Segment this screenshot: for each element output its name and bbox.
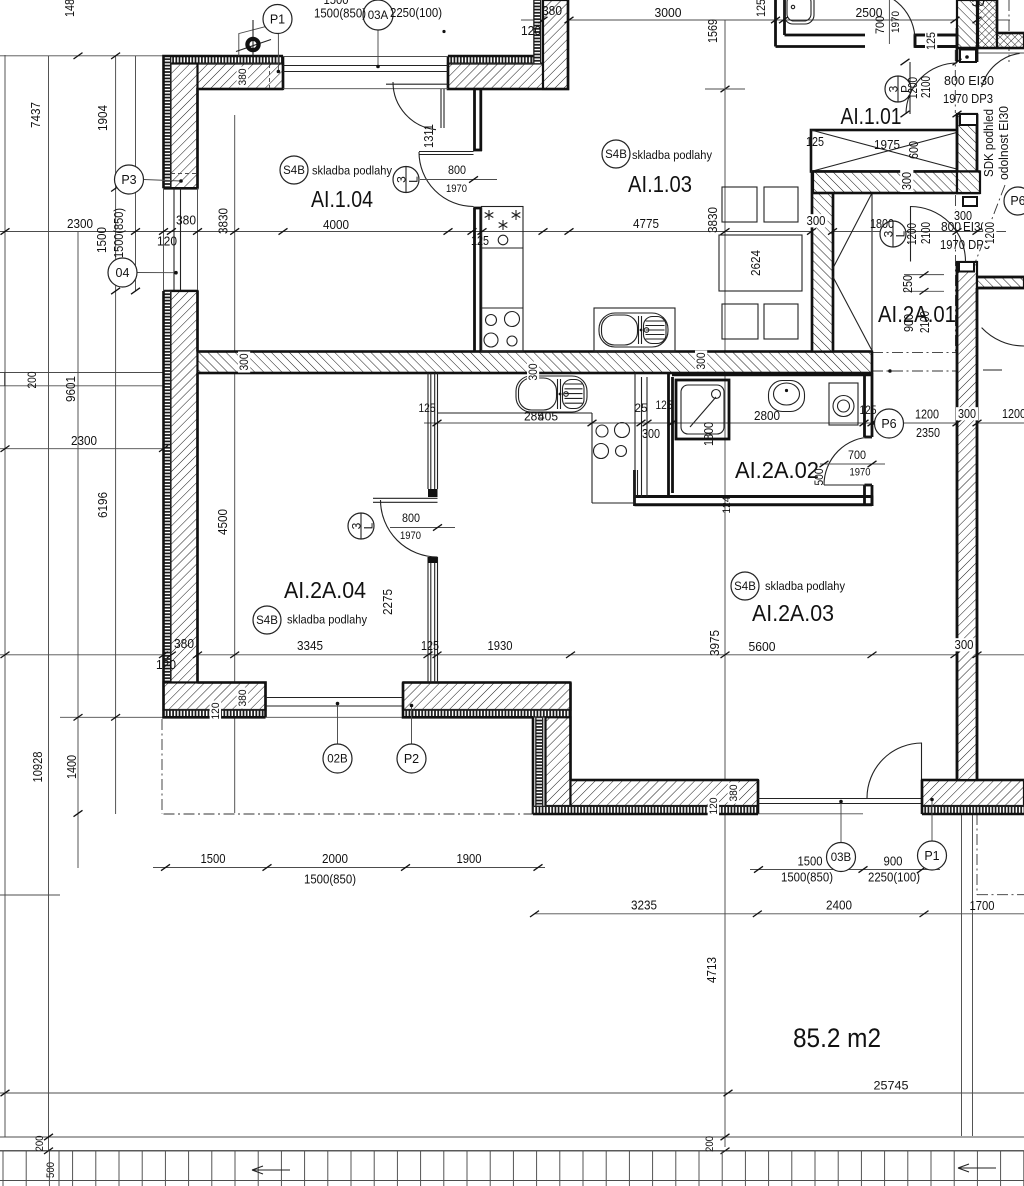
svg-text:AI.2A.02: AI.2A.02 [735, 457, 819, 483]
svg-text:1904: 1904 [95, 105, 110, 131]
svg-text:1500: 1500 [201, 851, 226, 866]
svg-text:skladba podlahy: skladba podlahy [312, 164, 393, 178]
svg-text:3830: 3830 [705, 207, 720, 233]
svg-text:125: 125 [656, 398, 673, 412]
svg-text:1500: 1500 [324, 0, 349, 7]
svg-text:1200: 1200 [915, 407, 939, 422]
svg-text:300: 300 [237, 353, 251, 370]
svg-text:1500(850): 1500(850) [304, 872, 356, 887]
svg-text:1970: 1970 [890, 11, 902, 33]
svg-text:300: 300 [694, 352, 708, 369]
svg-text:2250(100): 2250(100) [390, 5, 442, 20]
svg-text:200: 200 [704, 1136, 716, 1152]
svg-text:P3: P3 [121, 173, 136, 187]
svg-text:3000: 3000 [655, 5, 682, 20]
svg-text:124: 124 [721, 497, 733, 514]
svg-text:300: 300 [958, 406, 976, 421]
svg-text:P6: P6 [881, 417, 896, 431]
svg-text:500: 500 [45, 1162, 57, 1178]
svg-text:2800: 2800 [754, 408, 780, 423]
svg-text:2100: 2100 [917, 311, 932, 333]
svg-text:148: 148 [62, 0, 77, 17]
svg-text:4500: 4500 [215, 509, 230, 535]
svg-text:2350: 2350 [916, 425, 940, 440]
svg-text:1930: 1930 [488, 638, 513, 653]
svg-text:4713: 4713 [704, 957, 719, 983]
svg-text:1500(850): 1500(850) [314, 6, 366, 21]
svg-text:1400: 1400 [64, 755, 79, 779]
svg-text:1311: 1311 [421, 124, 436, 148]
svg-text:380: 380 [237, 69, 249, 86]
svg-text:800: 800 [448, 163, 466, 177]
svg-text:3345: 3345 [297, 638, 323, 653]
svg-text:7437: 7437 [28, 102, 43, 128]
svg-text:1200: 1200 [982, 222, 997, 244]
svg-text:125: 125 [754, 0, 768, 17]
svg-text:2624: 2624 [748, 250, 763, 276]
svg-text:2250(100): 2250(100) [868, 870, 920, 885]
svg-text:25: 25 [635, 401, 648, 415]
svg-text:900: 900 [884, 854, 903, 869]
svg-text:04: 04 [116, 266, 130, 280]
svg-text:AI.2A.04: AI.2A.04 [284, 577, 366, 603]
svg-text:1500: 1500 [94, 227, 109, 253]
svg-text:9601: 9601 [63, 376, 78, 402]
svg-text:1200: 1200 [904, 223, 919, 245]
svg-text:120: 120 [210, 703, 222, 720]
svg-text:SDK podhled: SDK podhled [982, 109, 996, 177]
svg-text:1970: 1970 [400, 530, 421, 542]
svg-text:380: 380 [174, 636, 194, 651]
svg-text:1500(850): 1500(850) [781, 870, 833, 885]
svg-text:1569: 1569 [705, 19, 720, 43]
svg-text:1975: 1975 [874, 137, 900, 152]
svg-text:1970 DP3: 1970 DP3 [943, 92, 993, 106]
svg-text:S4B: S4B [605, 149, 627, 161]
svg-text:25745: 25745 [874, 1079, 909, 1093]
svg-text:700: 700 [873, 16, 887, 34]
svg-text:4775: 4775 [633, 216, 659, 231]
svg-text:120: 120 [521, 23, 541, 38]
svg-text:AI.2A.03: AI.2A.03 [752, 600, 834, 626]
svg-text:85.2 m2: 85.2 m2 [793, 1023, 881, 1053]
svg-text:120: 120 [156, 657, 176, 672]
svg-text:skladba podlahy: skladba podlahy [287, 613, 368, 627]
svg-text:300: 300 [955, 637, 974, 652]
svg-text:10928: 10928 [30, 752, 45, 783]
svg-text:P1: P1 [924, 849, 939, 863]
svg-text:S4B: S4B [283, 165, 305, 177]
svg-text:P2: P2 [404, 752, 419, 766]
svg-text:1900: 1900 [457, 851, 482, 866]
svg-text:125: 125 [860, 403, 877, 417]
svg-text:380: 380 [237, 690, 249, 707]
svg-text:5600: 5600 [749, 639, 776, 654]
svg-text:2000: 2000 [322, 851, 348, 866]
svg-text:03A: 03A [368, 10, 389, 22]
svg-text:1700: 1700 [970, 898, 995, 913]
svg-text:2300: 2300 [71, 433, 97, 448]
svg-text:2275: 2275 [380, 589, 395, 615]
svg-text:800 EI30: 800 EI30 [944, 74, 994, 88]
svg-text:3975: 3975 [707, 630, 722, 656]
svg-text:L: L [407, 176, 421, 183]
svg-text:250: 250 [900, 275, 915, 293]
svg-text:AI.1.01: AI.1.01 [841, 103, 902, 129]
svg-text:P6: P6 [1010, 194, 1024, 208]
svg-text:AI.1.03: AI.1.03 [628, 171, 692, 197]
svg-text:380: 380 [176, 213, 196, 228]
svg-text:2400: 2400 [826, 898, 852, 913]
svg-text:1500(850): 1500(850) [111, 208, 126, 258]
svg-text:2100: 2100 [918, 76, 933, 98]
svg-text:300: 300 [807, 213, 826, 228]
svg-text:300: 300 [526, 363, 540, 380]
svg-text:1800: 1800 [870, 216, 894, 231]
svg-text:1970: 1970 [446, 183, 467, 195]
svg-text:1200: 1200 [1002, 406, 1024, 421]
svg-text:50: 50 [972, 0, 985, 9]
svg-text:skladba podlahy: skladba podlahy [765, 579, 846, 593]
svg-text:900: 900 [901, 314, 916, 332]
svg-text:120: 120 [708, 798, 720, 815]
svg-text:1970: 1970 [850, 467, 871, 479]
svg-text:405: 405 [538, 410, 558, 424]
svg-text:200: 200 [25, 371, 39, 388]
svg-text:380: 380 [542, 3, 562, 18]
svg-text:S4B: S4B [734, 581, 756, 593]
svg-text:3830: 3830 [216, 208, 231, 234]
svg-text:AI.1.04: AI.1.04 [311, 186, 373, 212]
svg-text:02B: 02B [327, 754, 348, 766]
svg-text:200: 200 [34, 1136, 46, 1152]
svg-text:380: 380 [728, 785, 740, 802]
svg-text:4000: 4000 [323, 217, 349, 232]
svg-text:P1: P1 [270, 13, 285, 27]
svg-text:L: L [362, 522, 376, 529]
svg-text:125: 125 [471, 233, 489, 248]
svg-text:03B: 03B [831, 852, 852, 864]
svg-text:600: 600 [906, 141, 921, 159]
svg-text:skladba podlahy: skladba podlahy [632, 148, 713, 162]
svg-text:2100: 2100 [918, 222, 933, 244]
svg-text:125: 125 [421, 638, 439, 653]
svg-text:S4B: S4B [256, 615, 278, 627]
svg-text:300: 300 [642, 426, 660, 441]
svg-text:125: 125 [924, 32, 938, 50]
svg-text:500: 500 [812, 468, 826, 485]
svg-text:3235: 3235 [631, 898, 657, 913]
svg-text:odolnost EI30: odolnost EI30 [997, 106, 1011, 180]
svg-text:700: 700 [848, 448, 866, 462]
svg-text:1800: 1800 [701, 422, 716, 446]
svg-text:800: 800 [402, 511, 420, 525]
svg-text:6196: 6196 [95, 492, 110, 518]
svg-text:120: 120 [157, 234, 177, 249]
svg-text:125: 125 [419, 401, 436, 415]
svg-text:300: 300 [899, 172, 914, 190]
svg-text:1500: 1500 [798, 854, 823, 869]
svg-text:2300: 2300 [67, 216, 93, 231]
svg-text:125: 125 [806, 134, 824, 149]
